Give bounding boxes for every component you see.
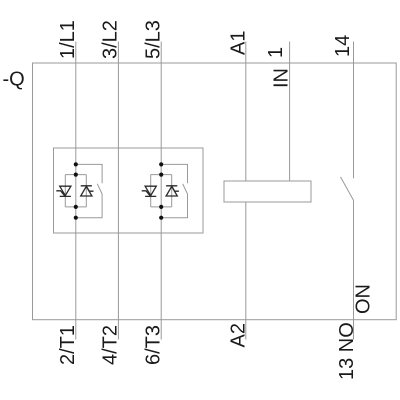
contact blade auxiliary NO switch xyxy=(341,177,354,200)
node dot phase3 top junction xyxy=(159,162,163,166)
thyristor module box xyxy=(54,148,204,233)
svg-text:ON: ON xyxy=(353,284,375,314)
wire L3 phase line xyxy=(160,42,162,340)
thyristor V1 down (left branch, phase 1) xyxy=(56,186,71,196)
wire L1 phase line xyxy=(75,42,77,340)
svg-text:1: 1 xyxy=(265,47,287,58)
svg-text:A2: A2 xyxy=(227,323,249,347)
wire A1 control line xyxy=(245,42,247,182)
svg-text:13 NO: 13 NO xyxy=(336,322,358,380)
control unit rectangle xyxy=(224,181,311,202)
wire 13 auxiliary line xyxy=(353,200,355,339)
svg-text:1/L1: 1/L1 xyxy=(57,20,79,59)
svg-text:IN: IN xyxy=(271,68,293,88)
svg-text:A1: A1 xyxy=(227,31,249,55)
svg-text:6/T3: 6/T3 xyxy=(142,325,164,365)
device outline box -Q xyxy=(33,63,397,320)
node dot phase1 bottom junction xyxy=(74,216,78,220)
thyristor pair phase 3 frame xyxy=(151,175,172,207)
node dot phase1 frame top xyxy=(74,173,78,177)
node dot phase3 bottom junction xyxy=(159,216,163,220)
thyristor pair phase 1 frame xyxy=(65,175,86,207)
bypass contact blade phase 3 xyxy=(183,184,188,194)
thyristor V2 up (right branch, phase 1) xyxy=(81,186,94,196)
svg-text:4/T2: 4/T2 xyxy=(100,325,122,365)
bypass contact blade phase 1 xyxy=(97,184,102,194)
svg-text:14: 14 xyxy=(332,35,354,57)
wire IN control line xyxy=(289,42,291,182)
wire 14 auxiliary line xyxy=(353,42,355,179)
thyristor V4 up (right branch, phase 3) xyxy=(166,186,179,196)
svg-text:3/L2: 3/L2 xyxy=(100,20,122,59)
node dot phase1 top junction xyxy=(74,162,78,166)
wire L2 phase line xyxy=(117,42,119,340)
node dot phase1 frame bottom xyxy=(74,205,78,209)
svg-text:5/L3: 5/L3 xyxy=(142,20,164,59)
svg-text:-Q: -Q xyxy=(3,69,25,91)
wire A2 control line xyxy=(245,202,247,340)
node dot phase3 frame top xyxy=(159,173,163,177)
node dot phase3 frame bottom xyxy=(159,205,163,209)
bypass contact wire phase 3 (hook) xyxy=(161,164,187,217)
svg-text:2/T1: 2/T1 xyxy=(57,325,79,365)
thyristor V3 down (left branch, phase 3) xyxy=(142,186,157,196)
bypass contact wire phase 1 (hook) xyxy=(76,164,102,217)
